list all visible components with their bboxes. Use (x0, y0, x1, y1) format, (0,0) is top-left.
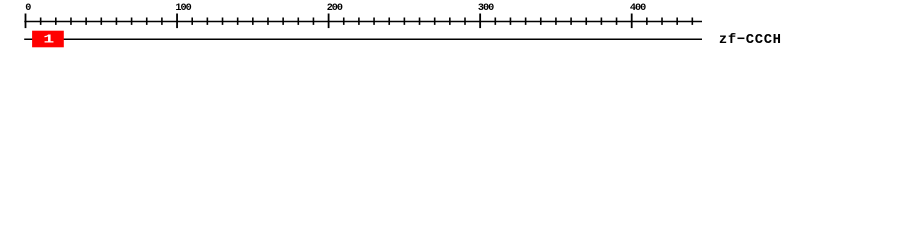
minor tick 350 (555, 18, 557, 25)
minor tick 110 (191, 18, 193, 25)
svg-text:100: 100 (175, 3, 191, 14)
minor tick 410 (646, 18, 648, 25)
minor tick 320 (509, 18, 511, 25)
minor tick 270 (434, 18, 436, 25)
svg-text:300: 300 (478, 3, 494, 14)
minor tick 10 (40, 18, 42, 25)
minor tick 260 (419, 18, 421, 25)
minor tick 150 (252, 18, 254, 25)
sequence line (24, 38, 702, 40)
minor tick 280 (449, 18, 451, 25)
minor tick 210 (343, 18, 345, 25)
major tick 200 (328, 14, 330, 29)
major tick 400 (631, 14, 633, 29)
svg-text:zf−CCCH: zf−CCCH (719, 32, 782, 48)
minor tick 50 (100, 18, 102, 25)
minor tick 430 (676, 18, 678, 25)
minor tick 310 (494, 18, 496, 25)
minor tick 370 (585, 18, 587, 25)
svg-text:400: 400 (630, 3, 646, 14)
minor tick 40 (85, 18, 87, 25)
minor tick 180 (297, 18, 299, 25)
minor tick 120 (206, 18, 208, 25)
minor tick 20 (55, 18, 57, 25)
major tick 300 (479, 14, 481, 29)
domain box 1 (zf-CCCH) (32, 31, 64, 48)
minor tick 60 (115, 18, 117, 25)
minor tick 30 (70, 18, 72, 25)
minor tick 420 (661, 18, 663, 25)
minor tick 160 (267, 18, 269, 25)
minor tick 130 (222, 18, 224, 25)
minor tick 240 (388, 18, 390, 25)
minor tick 140 (237, 18, 239, 25)
major tick 100 (176, 14, 178, 29)
minor tick 90 (161, 18, 163, 25)
major tick 0 (25, 14, 27, 29)
minor tick 170 (282, 18, 284, 25)
minor tick 340 (540, 18, 542, 25)
svg-text:1: 1 (43, 33, 54, 47)
svg-text:0: 0 (25, 3, 31, 14)
minor tick 220 (358, 18, 360, 25)
minor tick 440 (691, 18, 693, 25)
minor tick 230 (373, 18, 375, 25)
minor tick 380 (600, 18, 602, 25)
minor tick 390 (616, 18, 618, 25)
minor tick 70 (131, 18, 133, 25)
minor tick 80 (146, 18, 148, 25)
svg-text:200: 200 (327, 3, 343, 14)
minor tick 290 (464, 18, 466, 25)
minor tick 360 (570, 18, 572, 25)
background (0, 0, 900, 58)
minor tick 330 (525, 18, 527, 25)
minor tick 250 (403, 18, 405, 25)
minor tick 190 (312, 18, 314, 25)
ruler axis line (24, 20, 702, 22)
